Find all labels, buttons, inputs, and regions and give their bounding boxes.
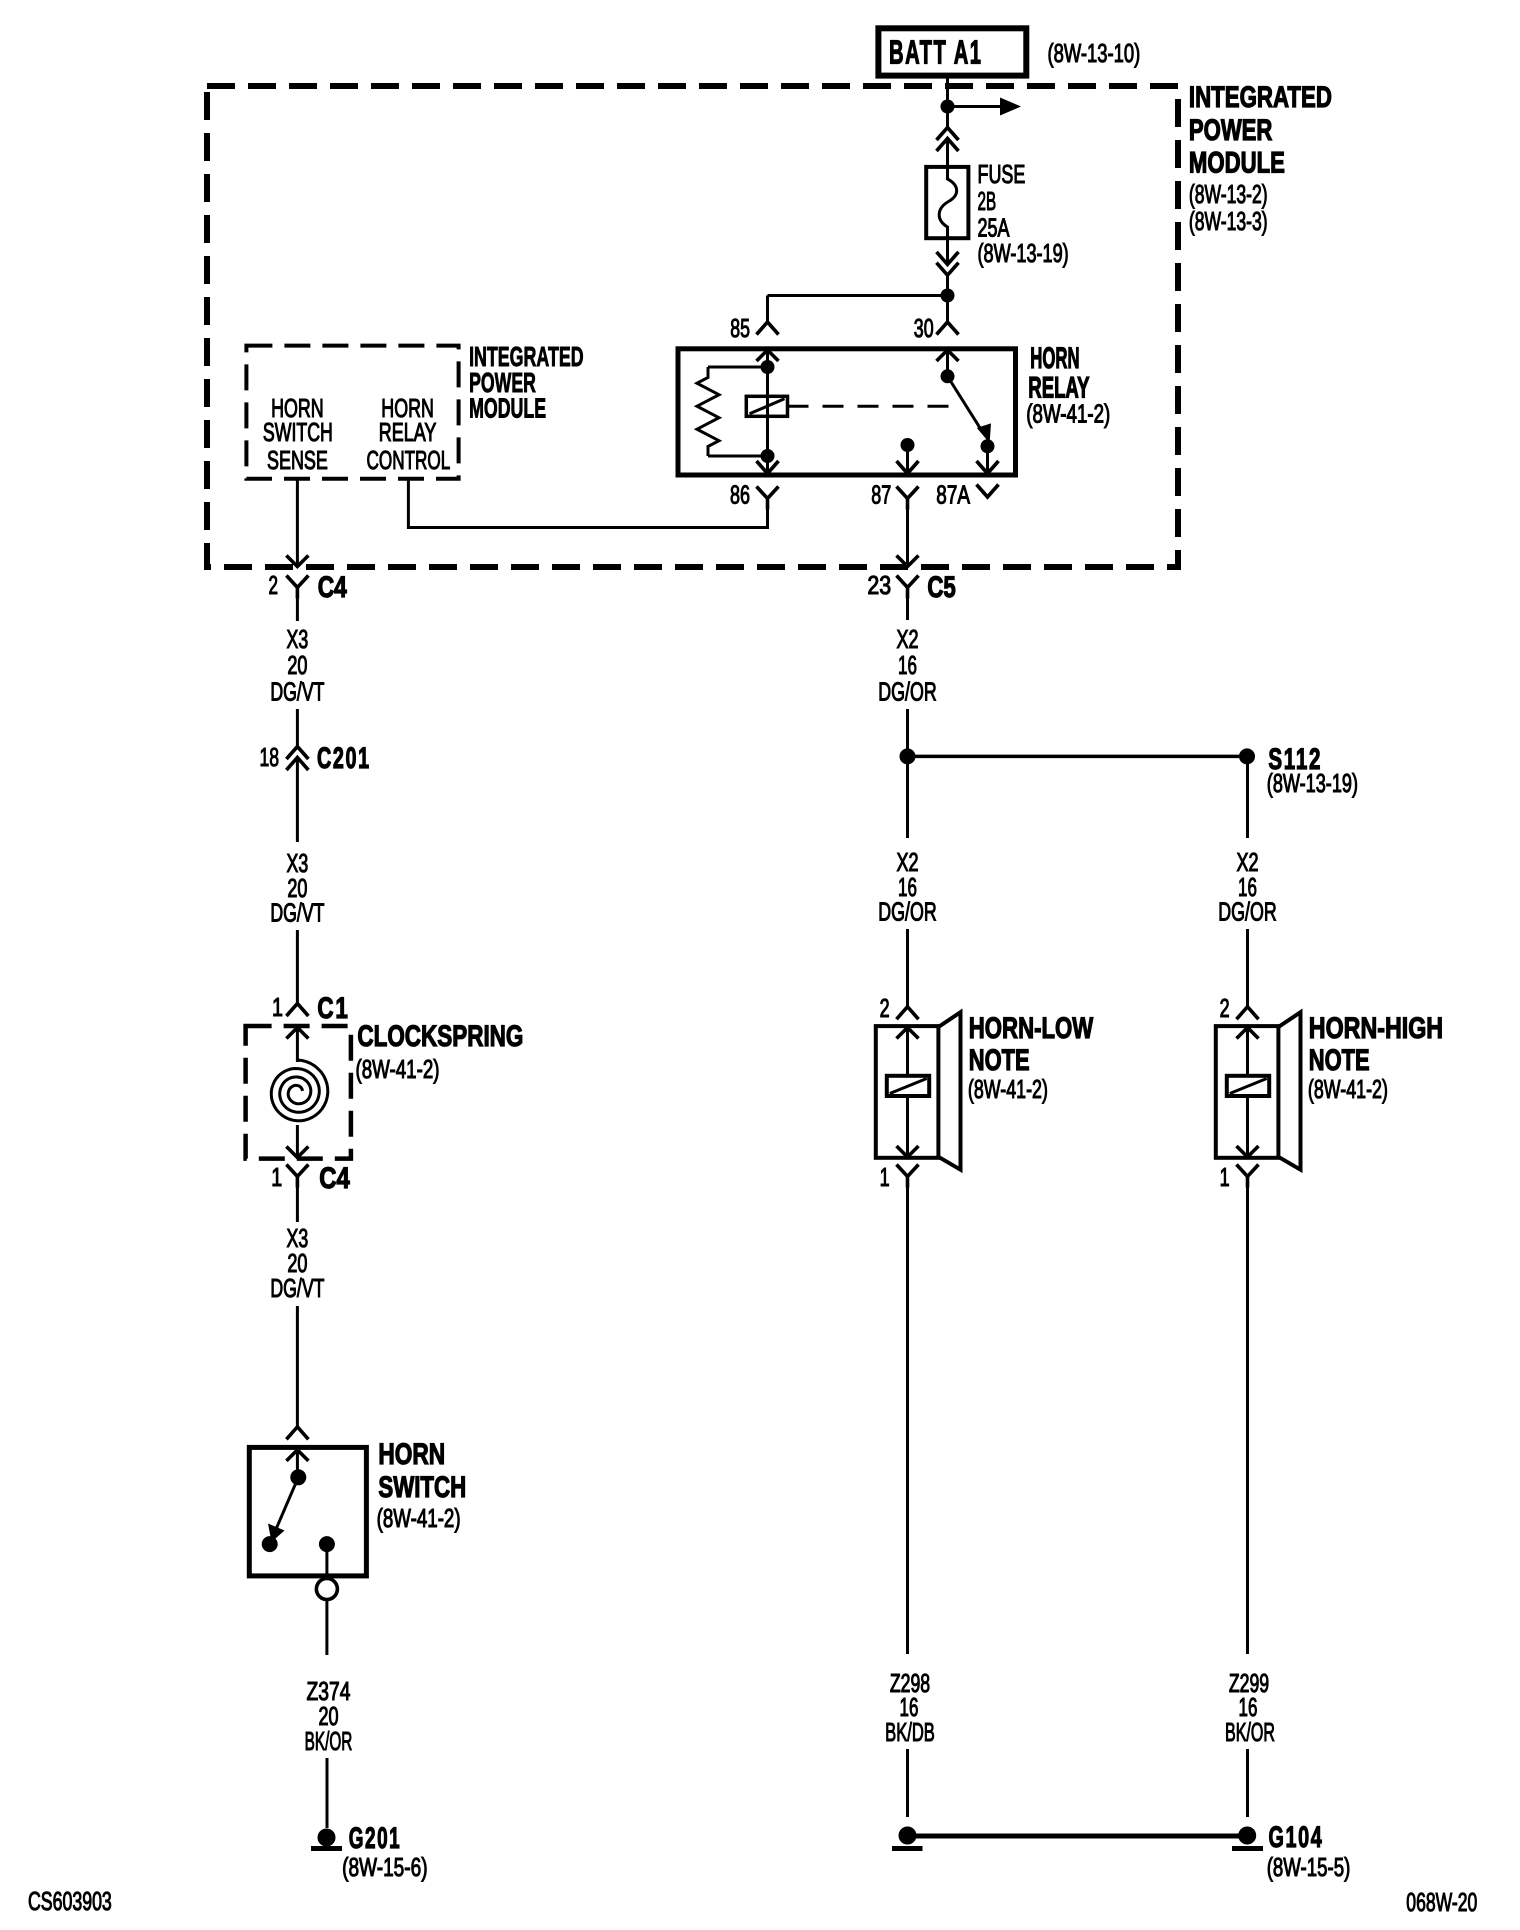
off-page arrow right <box>948 105 1001 108</box>
fuse 2B 25A box <box>926 167 968 238</box>
connector chevron <box>897 1007 919 1020</box>
svg-text:(8W-13-10): (8W-13-10) <box>1048 38 1141 68</box>
svg-text:BATT A1: BATT A1 <box>889 33 982 70</box>
svg-text:HORN: HORN <box>1030 342 1079 375</box>
wire <box>296 709 299 747</box>
svg-text:(8W-41-2): (8W-41-2) <box>1308 1074 1388 1104</box>
svg-text:HORN-HIGH: HORN-HIGH <box>1309 1012 1443 1045</box>
wire BATT A1 to fuse <box>946 76 949 128</box>
relay node 85 <box>761 360 775 374</box>
wire fuse to junction <box>946 238 949 264</box>
ground link wire <box>908 1834 1248 1839</box>
clockspring entry arrow <box>286 1028 308 1039</box>
svg-text:BK/OR: BK/OR <box>1225 1717 1275 1747</box>
label BATT A1 <box>889 33 982 70</box>
svg-text:FUSE: FUSE <box>978 159 1026 189</box>
C4 arrow at IPM boundary <box>286 556 308 567</box>
svg-text:20: 20 <box>287 650 307 680</box>
svg-text:18: 18 <box>260 742 280 772</box>
wire <box>296 599 299 622</box>
connector Y <box>1237 1165 1259 1188</box>
svg-text:(8W-41-2): (8W-41-2) <box>377 1503 461 1533</box>
label G104 <box>1269 1821 1324 1854</box>
horn switch entry arrow <box>286 1450 308 1461</box>
svg-text:(8W-41-2): (8W-41-2) <box>356 1054 440 1084</box>
wire <box>296 930 299 1004</box>
relay node 87 <box>901 438 915 452</box>
horn switch contacts <box>290 1469 306 1485</box>
svg-text:23: 23 <box>867 570 891 600</box>
svg-text:RELAY: RELAY <box>379 417 437 447</box>
Integrated Power Module dashed boundary <box>207 86 1178 567</box>
pin 87A exit chevron <box>977 461 999 474</box>
connector C4 symbol <box>286 576 308 599</box>
double chevron (in-line connector) upper <box>937 128 959 141</box>
connector C201 chevron upper <box>286 747 308 760</box>
pin 87 exit chevron <box>897 461 919 474</box>
svg-text:(8W-13-19): (8W-13-19) <box>1267 768 1358 798</box>
pin 86 exit chevron <box>757 461 779 474</box>
pin 85 connector chevron <box>757 322 779 335</box>
IPM logic sub-box dashed <box>246 346 458 479</box>
svg-text:C5: C5 <box>927 571 955 604</box>
svg-text:(8W-15-5): (8W-15-5) <box>1267 1852 1351 1882</box>
horn speaker flare <box>1278 1012 1300 1169</box>
svg-text:C201: C201 <box>317 742 371 775</box>
wire into fuse <box>946 139 949 167</box>
wire to G201 <box>326 1758 329 1828</box>
horn switch ground pigtail <box>316 1579 337 1600</box>
relay coil suppression resistor <box>708 366 768 369</box>
svg-text:HORN-LOW: HORN-LOW <box>969 1012 1094 1045</box>
wire to horn low <box>906 929 909 1007</box>
connector chevron <box>1237 1007 1259 1020</box>
horn body box <box>876 1026 939 1158</box>
connector C201 chevron lower <box>286 758 308 771</box>
wire <box>906 599 909 621</box>
svg-text:1: 1 <box>272 992 283 1022</box>
connector Y <box>897 1165 919 1188</box>
svg-text:16: 16 <box>898 650 917 680</box>
clockspring spiral <box>271 1060 328 1121</box>
entry arrow <box>897 1028 919 1039</box>
svg-text:1: 1 <box>880 1162 890 1192</box>
wire <box>296 758 299 843</box>
wire horn low to ground label <box>906 1188 909 1655</box>
junction at BATT feed <box>941 100 955 114</box>
splice junction <box>900 748 916 764</box>
ground G201 <box>318 1829 336 1847</box>
svg-text:2: 2 <box>1220 993 1230 1023</box>
splice S112 <box>1239 748 1255 764</box>
svg-text:DG/VT: DG/VT <box>270 1273 324 1303</box>
horn switch box <box>249 1447 366 1576</box>
ground G104 <box>1238 1827 1256 1845</box>
svg-text:SENSE: SENSE <box>267 445 328 475</box>
svg-text:NOTE: NOTE <box>969 1044 1030 1077</box>
svg-text:G104: G104 <box>1269 1821 1324 1854</box>
wire <box>296 1188 299 1223</box>
wire horn high to ground label <box>1246 1188 1249 1655</box>
label G201 <box>349 1822 402 1855</box>
wire to horn switch <box>296 1306 299 1427</box>
label C201 <box>317 742 371 775</box>
wire pin 87 to C5 <box>906 505 909 565</box>
pin 86 connector Y <box>757 487 779 510</box>
pin 85 entry arrow inside relay <box>757 350 779 361</box>
svg-text:2B: 2B <box>978 186 997 216</box>
relay coil-to-armature dashed link <box>788 405 962 408</box>
pin 87A connector chevron <box>977 485 999 498</box>
label S112 <box>1268 743 1322 776</box>
exit arrow <box>897 1146 919 1157</box>
svg-text:1: 1 <box>271 1162 282 1192</box>
svg-text:BK/DB: BK/DB <box>885 1717 935 1747</box>
svg-text:87: 87 <box>871 480 891 510</box>
svg-text:INTEGRATED: INTEGRATED <box>1189 81 1332 114</box>
pin 30 entry arrow inside relay <box>937 350 959 361</box>
svg-text:(8W-13-2): (8W-13-2) <box>1189 179 1268 209</box>
svg-text:MODULE: MODULE <box>1189 147 1285 180</box>
svg-text:DG/OR: DG/OR <box>1218 897 1276 927</box>
wire <box>906 709 909 756</box>
svg-text:POWER: POWER <box>1189 114 1273 147</box>
relay node 86 <box>761 449 775 463</box>
svg-text:30: 30 <box>914 313 934 343</box>
wire horn relay control to pin 86 <box>408 479 767 528</box>
svg-text:DG/OR: DG/OR <box>878 677 936 707</box>
svg-text:DG/OR: DG/OR <box>878 897 936 927</box>
svg-text:068W-20: 068W-20 <box>1406 1887 1477 1917</box>
wire <box>906 756 909 838</box>
svg-text:C4: C4 <box>319 1162 350 1195</box>
wire to pin 85 <box>768 294 948 297</box>
svg-text:(8W-41-2): (8W-41-2) <box>1026 399 1110 429</box>
svg-text:C1: C1 <box>317 991 349 1025</box>
wire to G104 <box>1246 1749 1249 1817</box>
clockspring dashed box <box>246 1026 351 1159</box>
horn speaker flare <box>938 1012 960 1169</box>
connector C1 chevron <box>286 1004 308 1017</box>
junction feeding relay pins 30/85 <box>941 289 955 303</box>
wire horn switch sense to C4 <box>296 479 299 565</box>
svg-text:2: 2 <box>880 993 890 1023</box>
relay coil <box>766 367 769 456</box>
svg-text:MODULE: MODULE <box>469 393 546 424</box>
svg-text:2: 2 <box>269 570 279 600</box>
horn coil <box>887 1076 929 1096</box>
connector C5 symbol <box>897 576 919 599</box>
svg-text:DG/VT: DG/VT <box>270 898 324 928</box>
wire inside horn <box>1246 1096 1249 1157</box>
horn body box <box>1216 1026 1279 1158</box>
label C1 <box>317 991 349 1025</box>
svg-text:85: 85 <box>730 313 750 343</box>
double chevron down upper <box>937 252 959 265</box>
connector BATT A1 box <box>878 28 1026 75</box>
pin 87 connector Y <box>897 487 919 510</box>
svg-text:1: 1 <box>1220 1162 1230 1192</box>
svg-text:HORN: HORN <box>378 1438 445 1471</box>
wire down to pin 85 <box>766 296 769 323</box>
svg-text:DG/VT: DG/VT <box>270 677 324 707</box>
wire inside horn <box>906 1096 909 1157</box>
horn switch blade <box>277 1477 299 1528</box>
svg-text:(8W-13-19): (8W-13-19) <box>978 238 1069 268</box>
splice wire to S112 <box>908 755 1248 759</box>
entry arrow <box>1237 1028 1259 1039</box>
svg-text:86: 86 <box>730 480 750 510</box>
pin 30 connector chevron <box>937 322 959 335</box>
svg-text:(8W-41-2): (8W-41-2) <box>968 1074 1048 1104</box>
svg-text:CONTROL: CONTROL <box>367 445 451 475</box>
svg-text:CLOCKSPRING: CLOCKSPRING <box>357 1020 523 1053</box>
svg-text:87A: 87A <box>936 480 970 510</box>
svg-text:(8W-15-6): (8W-15-6) <box>342 1852 428 1882</box>
exit arrow <box>1237 1146 1259 1157</box>
wire to horn high <box>1246 929 1249 1007</box>
svg-text:SWITCH: SWITCH <box>378 1471 466 1504</box>
relay node 87A <box>981 439 995 453</box>
svg-text:BK/OR: BK/OR <box>305 1726 353 1756</box>
svg-text:CS603903: CS603903 <box>28 1886 112 1916</box>
svg-text:(8W-13-3): (8W-13-3) <box>1189 206 1268 236</box>
fuse element wavy line <box>939 168 956 238</box>
horn coil <box>1227 1076 1269 1096</box>
double chevron lower <box>937 139 959 152</box>
relay node 30 pivot <box>941 369 955 383</box>
clockspring exit arrow <box>286 1147 308 1158</box>
svg-text:G201: G201 <box>349 1822 402 1855</box>
ground G104 left <box>899 1827 917 1845</box>
horn relay U1 box <box>678 349 1016 475</box>
wire <box>325 1600 328 1656</box>
svg-text:C4: C4 <box>318 571 347 604</box>
svg-text:SWITCH: SWITCH <box>263 417 333 447</box>
wire <box>1246 756 1249 838</box>
C5 arrow at IPM boundary <box>897 556 919 567</box>
double chevron down lower <box>937 263 959 276</box>
wire to pigtail <box>325 1544 328 1578</box>
svg-text:NOTE: NOTE <box>1309 1044 1370 1077</box>
horn switch connector chevron <box>286 1427 308 1440</box>
wire down to pin 30 <box>946 296 949 323</box>
connector C4 (clockspring) Y <box>286 1165 308 1188</box>
wire to G104 <box>906 1749 909 1817</box>
